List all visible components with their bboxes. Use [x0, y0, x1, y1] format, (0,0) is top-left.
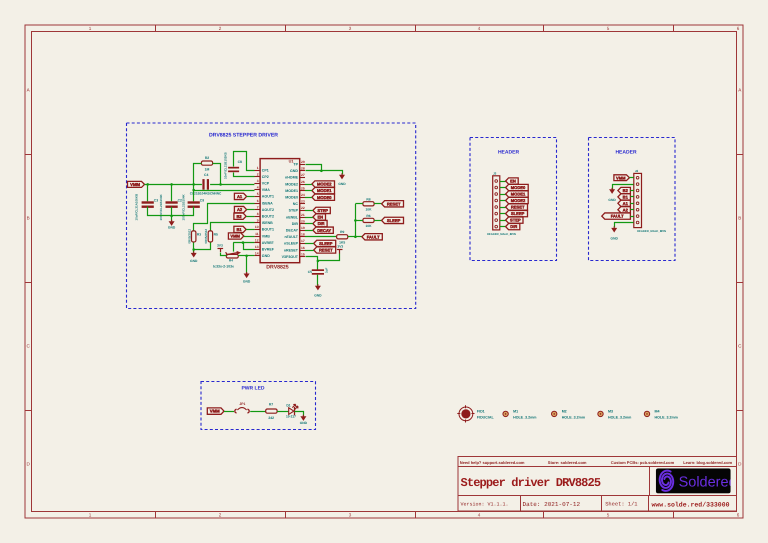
svg-text:29: 29 [301, 160, 305, 164]
svg-text:M3: M3 [608, 410, 613, 414]
wire BOUT1 [246, 229, 254, 231]
svg-text:Soldered: Soldered [679, 475, 737, 491]
svg-text:BVREF: BVREF [262, 248, 275, 252]
wire gnd stub [193, 250, 195, 253]
svg-text:1uF: 1uF [325, 267, 329, 273]
wire DECAY [305, 230, 313, 232]
svg-text:MODE2: MODE2 [285, 182, 298, 186]
svg-text:DECAY: DECAY [286, 229, 299, 233]
svg-text:GND: GND [262, 254, 270, 258]
LED D1 [289, 408, 294, 415]
svg-text:A1: A1 [623, 201, 629, 206]
svg-text:19: 19 [301, 226, 305, 230]
svg-text:ISENB: ISENB [262, 221, 273, 225]
svg-text:6: 6 [257, 199, 259, 203]
net flag A2 (AOUT2) [234, 206, 246, 212]
svg-text:R8: R8 [366, 197, 370, 201]
capacitor C9 [188, 201, 200, 203]
svg-text:20: 20 [301, 219, 305, 223]
net flag VMM at VMB pin [228, 233, 243, 239]
wire R8 leads [355, 203, 363, 205]
resistor R6 10K [363, 218, 374, 222]
svg-text:nENBL: nENBL [286, 215, 299, 219]
svg-text:5: 5 [607, 513, 610, 518]
wire C9 top lead [193, 190, 195, 201]
svg-text:VMM: VMM [130, 182, 140, 187]
net flag STEP (J3) [506, 217, 523, 223]
net flag MODE0 [312, 194, 335, 200]
svg-text:B: B [27, 216, 30, 221]
net flag STEP [313, 207, 330, 213]
net flag A1 (J2) [618, 200, 631, 206]
net flag RESET (J3) [506, 204, 528, 210]
svg-text:R3: R3 [197, 232, 201, 236]
capacitor C5 [312, 269, 324, 271]
svg-text:4: 4 [257, 186, 259, 190]
svg-text:22: 22 [301, 206, 305, 210]
capacitor C8 (CP1-CP2) [228, 167, 239, 169]
net flag DIR (J3) [506, 223, 520, 229]
svg-text:2: 2 [219, 26, 222, 31]
svg-text:0R05/2512: 0R05/2512 [187, 229, 191, 244]
wire VMB [244, 236, 255, 238]
capacitor C3 [142, 201, 154, 203]
junction pullup rail [354, 219, 357, 222]
junction TP/GND [320, 170, 323, 173]
wire J2 A2 [630, 209, 633, 211]
svg-text:RESET: RESET [387, 201, 401, 206]
wire J3 MODE0 [500, 187, 506, 189]
wire R9 to FAULT flag [348, 236, 362, 238]
wire VCP segment after C4 [210, 184, 254, 186]
connector J2 body [634, 173, 642, 227]
svg-text:STEP: STEP [510, 218, 521, 223]
svg-text:STEP: STEP [317, 208, 328, 213]
wire BOUT2 [246, 216, 254, 218]
svg-text:DIR: DIR [292, 222, 299, 226]
wire J2 pin8 to gnd [615, 223, 634, 228]
resistor R8 10K [363, 202, 374, 206]
svg-text:B2: B2 [236, 214, 242, 219]
svg-text:7: 7 [257, 205, 259, 209]
net flag RESET (pullup) [382, 201, 404, 207]
svg-text:PWR LED: PWR LED [241, 385, 264, 391]
svg-text:1: 1 [89, 26, 92, 31]
wire 3V3 to trimmer [221, 253, 227, 256]
net flag EN [313, 214, 326, 220]
wire MODE2 [305, 184, 312, 186]
net flag FAULT [362, 234, 382, 240]
wire CP1 net [234, 152, 255, 171]
svg-text:C5: C5 [308, 270, 312, 274]
svg-text:AOUT1: AOUT1 [262, 195, 274, 199]
svg-text:10nF/CL21B103KB: 10nF/CL21B103KB [223, 151, 227, 179]
net flag EN (J3) [506, 178, 519, 184]
wire JP1 to R7 [250, 411, 266, 413]
svg-text:Sheet: 1/1: Sheet: 1/1 [605, 502, 637, 508]
svg-text:HEADER_MALE_8PIN: HEADER_MALE_8PIN [637, 229, 666, 233]
wire trimmer to gnd net [238, 255, 246, 257]
ground (PWR LED) [302, 415, 304, 417]
wire J3 EN [500, 181, 506, 183]
svg-text:B1: B1 [236, 227, 242, 232]
svg-text:3V3: 3V3 [337, 245, 343, 249]
net flag MODE2 [312, 181, 335, 187]
wire wiper feed [233, 243, 235, 252]
dashed box HEADER 1 [470, 138, 557, 261]
svg-text:nRESET: nRESET [284, 248, 299, 252]
svg-text:CP1: CP1 [262, 168, 269, 172]
svg-text:10uF/CL31A106KB: 10uF/CL31A106KB [135, 193, 139, 221]
wire AVREF [233, 242, 254, 244]
net flag SLEEP (pullup) [382, 217, 404, 223]
wire CP2 net [234, 173, 255, 177]
svg-text:2: 2 [257, 172, 259, 176]
capacitor C2 [166, 201, 178, 203]
net flag MODE1 (J3) [506, 191, 529, 197]
svg-text:Stepper driver DRV8825: Stepper driver DRV8825 [461, 476, 601, 490]
svg-text:A2: A2 [623, 207, 629, 212]
svg-text:MODE0: MODE0 [317, 195, 332, 200]
svg-text:BOUT2: BOUT2 [262, 215, 274, 219]
svg-text:10K: 10K [365, 224, 372, 228]
svg-text:GND: GND [300, 421, 308, 425]
connector J3 body [493, 176, 500, 230]
svg-text:MODE1: MODE1 [285, 189, 298, 193]
wire cap bank bottom rail [148, 207, 194, 216]
svg-text:ISENA: ISENA [262, 201, 273, 205]
capacitor C4 (series on VCP) [202, 179, 204, 190]
svg-text:3V3: 3V3 [217, 243, 223, 247]
wire ISENB to R5 [211, 223, 255, 231]
wire VMM rail [145, 184, 202, 186]
svg-text:VMM: VMM [210, 409, 220, 414]
wire VMA feed [194, 185, 255, 191]
svg-text:GND: GND [608, 198, 616, 202]
wire MODE0 [305, 197, 312, 199]
svg-text:Date: 2021-07-12: Date: 2021-07-12 [523, 501, 581, 508]
svg-text:12: 12 [255, 238, 259, 242]
wire ISENA to R3 [194, 204, 255, 231]
junction VMA [192, 189, 195, 192]
op-amp U1 DRV8825 IC body [260, 159, 300, 263]
ground (pin 28) [341, 173, 343, 175]
wire J2 pin2 to gnd [613, 185, 634, 190]
wire MODE1 [305, 190, 312, 192]
wire GND pin14 [247, 255, 255, 257]
svg-text:MODE0: MODE0 [285, 196, 298, 200]
wire AOUT1 [247, 196, 255, 198]
svg-text:AOUT2: AOUT2 [262, 208, 274, 212]
svg-text:R2: R2 [205, 156, 209, 160]
net flag RESET at pin16 [314, 247, 336, 253]
net flag MODE1 [312, 187, 335, 193]
net flag DECAY [313, 227, 333, 233]
svg-text:C9: C9 [200, 198, 204, 202]
resistor R5 sense [208, 231, 212, 242]
svg-text:25: 25 [301, 186, 305, 190]
svg-text:STEP: STEP [289, 209, 299, 213]
net flag VMM (supply input) [128, 181, 145, 187]
svg-text:AVREF: AVREF [262, 241, 275, 245]
svg-text:DIR: DIR [318, 221, 325, 226]
wire GND pin28 [306, 171, 343, 175]
net flag MODE2 (J3) [506, 197, 529, 203]
net flag B1 (J2) [618, 194, 631, 200]
svg-text:6: 6 [737, 513, 740, 518]
svg-text:MODE2: MODE2 [317, 182, 332, 187]
net flag DIR [313, 220, 327, 226]
svg-text:100nF/CL21B104K: 100nF/CL21B104K [159, 193, 163, 220]
svg-text:100nF/CL21B104K: 100nF/CL21B104K [182, 193, 186, 220]
wire J3 DIR [500, 226, 506, 228]
svg-text:JP1: JP1 [239, 402, 245, 406]
svg-text:D1: D1 [286, 403, 290, 407]
svg-text:11: 11 [255, 232, 259, 236]
svg-text:R4: R4 [229, 259, 233, 263]
svg-text:VMB: VMB [262, 234, 270, 238]
dashed box DRV8825 STEPPER DRIVER [127, 123, 416, 309]
junction sense gnd [192, 248, 195, 251]
svg-text:NC: NC [293, 202, 299, 206]
svg-text:17: 17 [301, 239, 305, 243]
svg-text:HEADER_MALE_8PIN: HEADER_MALE_8PIN [487, 232, 516, 236]
wire J2 pin1 [629, 177, 633, 179]
wire VMM to JP1 [224, 411, 234, 413]
svg-text:C3: C3 [154, 198, 158, 202]
svg-text:26: 26 [301, 180, 305, 184]
junction C2 [170, 183, 173, 186]
potentiometer R4 trimmer [226, 254, 238, 258]
resistor R3 sense [192, 231, 196, 242]
svg-text:J2: J2 [635, 169, 639, 173]
svg-text:Need help? support.soldered.co: Need help? support.soldered.com [460, 460, 525, 465]
svg-text:M1: M1 [513, 410, 518, 414]
svg-text:CL21B104KBCNNNC: CL21B104KBCNNNC [190, 192, 222, 196]
svg-text:28: 28 [301, 167, 305, 171]
svg-text:3: 3 [349, 513, 352, 518]
dashed box HEADER 2 [589, 138, 676, 261]
svg-text:1: 1 [89, 513, 92, 518]
mounting hole M1 [503, 411, 508, 416]
Soldered logo S icon [660, 471, 674, 491]
svg-text:GND: GND [338, 182, 346, 186]
frame row ticks left/right [25, 154, 32, 156]
svg-text:CP2: CP2 [262, 175, 269, 179]
wire J2 FAULT [630, 216, 633, 218]
title block dividers [458, 466, 737, 468]
svg-text:FID1: FID1 [477, 410, 485, 414]
svg-text:DRV8825: DRV8825 [266, 265, 289, 271]
svg-text:MODE1: MODE1 [317, 188, 332, 193]
net flag A1 (AOUT1) [234, 193, 246, 199]
svg-text:8: 8 [257, 212, 259, 216]
svg-text:4: 4 [478, 513, 481, 518]
wire pullup rail vertical [355, 204, 357, 237]
svg-text:5: 5 [257, 192, 259, 196]
wire V3P3OUT [306, 257, 318, 270]
svg-text:RESET: RESET [511, 205, 525, 210]
svg-text:R9: R9 [340, 230, 344, 234]
svg-text:VCP: VCP [262, 182, 270, 186]
wire C2 bottom lead [171, 207, 173, 222]
junction R2/VCP [219, 183, 222, 186]
Soldered logo text [679, 475, 737, 491]
U1 left pins 1-14 [254, 170, 260, 172]
svg-text:C4: C4 [204, 173, 208, 177]
wire J2 B2 [630, 190, 633, 192]
svg-text:3: 3 [257, 179, 259, 183]
title block border [458, 457, 737, 512]
net flag SLEEP (J3) [506, 210, 528, 216]
svg-text:SLEEP: SLEEP [511, 211, 525, 216]
wire J3 SLEEP [500, 213, 506, 215]
wire C5 to gnd [317, 275, 319, 286]
svg-text:HOLE_3.2mm: HOLE_3.2mm [513, 415, 536, 419]
svg-text:Custom PCBs: pcb.soldered.com: Custom PCBs: pcb.soldered.com [611, 460, 675, 465]
svg-text:R7: R7 [269, 403, 273, 407]
net flag MODE0 (J3) [506, 184, 529, 190]
svg-text:SLEEP: SLEEP [319, 241, 333, 246]
svg-text:242: 242 [268, 416, 274, 420]
wire gnd drop [246, 256, 248, 274]
wire R6 leads [355, 220, 363, 222]
svg-text:6: 6 [737, 26, 740, 31]
svg-text:21: 21 [301, 213, 305, 217]
wire R2 right branch [213, 164, 221, 185]
svg-text:GND: GND [190, 259, 198, 263]
wire D1 to gnd [295, 412, 304, 417]
svg-text:23: 23 [301, 200, 305, 204]
connector J2 pin circles [636, 176, 639, 179]
svg-text:www.solde.red/333000: www.solde.red/333000 [652, 501, 730, 508]
svg-text:GND: GND [611, 237, 619, 241]
svg-text:MODE0: MODE0 [511, 185, 526, 190]
svg-text:MODE1: MODE1 [511, 192, 526, 197]
wire AOUT2 [247, 209, 255, 211]
svg-text:16: 16 [301, 246, 305, 250]
wire STEP [305, 210, 313, 212]
svg-text:TP: TP [293, 163, 298, 167]
ground (J2 pin2) [611, 188, 613, 190]
ground (J2 pin8) [613, 226, 615, 228]
ground (sense) [193, 251, 195, 253]
net flag SLEEP at pin17 [314, 240, 336, 246]
mounting hole M2 [552, 411, 557, 416]
wire TP pad to gnd net [306, 165, 322, 171]
frame column ticks top/bottom [155, 25, 157, 32]
wire J3 MODE2 [500, 200, 506, 202]
svg-text:GND: GND [243, 280, 251, 284]
resistor R7 242 [266, 409, 277, 413]
svg-text:A1: A1 [237, 194, 243, 199]
fiducial FID1 [459, 407, 473, 421]
svg-text:B1: B1 [623, 194, 629, 199]
svg-text:18: 18 [301, 233, 305, 237]
svg-text:V3P3OUT: V3P3OUT [282, 255, 299, 259]
net flag VMM (PWR LED) [207, 408, 224, 414]
wire J2 B1 [630, 196, 633, 198]
svg-text:A2: A2 [237, 207, 243, 212]
svg-text:C8: C8 [238, 160, 242, 164]
junction pot/gnd [245, 255, 248, 258]
U1 right pins 29,28..15 [300, 164, 305, 166]
connector J3 pin circles [495, 180, 498, 183]
svg-text:GND: GND [290, 169, 298, 173]
svg-text:Version: V1.1.1.: Version: V1.1.1. [461, 501, 509, 507]
svg-text:RESET: RESET [319, 248, 333, 253]
svg-text:EN: EN [317, 215, 323, 220]
net flag VMM (J2 pin1) [614, 175, 630, 181]
svg-text:5: 5 [607, 26, 610, 31]
svg-text:MODE2: MODE2 [511, 198, 526, 203]
wire R2 left branch [194, 164, 202, 185]
jumper JP1 [235, 409, 237, 413]
dashed box PWR LED [201, 382, 316, 430]
svg-text:Learn: blog.soldered.com: Learn: blog.soldered.com [683, 460, 732, 465]
svg-text:M2: M2 [562, 410, 567, 414]
svg-text:FIDUCIAL: FIDUCIAL [477, 415, 495, 419]
svg-text:1M: 1M [205, 168, 210, 172]
svg-text:nSLEEP: nSLEEP [284, 242, 299, 246]
svg-text:HOLE_3.2mm: HOLE_3.2mm [608, 415, 631, 419]
mounting hole M4 [644, 411, 649, 416]
svg-text:VMM: VMM [616, 175, 626, 180]
junction C3 [146, 183, 149, 186]
resistor R2 1M parallel [201, 161, 212, 165]
svg-text:SLEEP: SLEEP [387, 218, 401, 223]
wire 3V3 branch [318, 254, 340, 261]
svg-text:27: 27 [301, 173, 305, 177]
net flag B1 (BOUT1) [234, 226, 246, 232]
wire nRESET [305, 250, 314, 252]
svg-text:J3: J3 [493, 172, 497, 176]
net flag FAULT (J2) [602, 213, 631, 219]
svg-text:tc33x-2-103e: tc33x-2-103e [213, 265, 234, 269]
svg-text:4: 4 [478, 26, 481, 31]
svg-text:EN: EN [510, 179, 516, 184]
power flag 3V3 (V3P3OUT) [337, 249, 343, 251]
svg-text:1: 1 [257, 166, 259, 170]
wire DIR [305, 223, 313, 225]
ground (cap bank) [171, 220, 173, 222]
svg-text:13: 13 [255, 245, 259, 249]
svg-text:10: 10 [255, 225, 259, 229]
svg-text:GND: GND [314, 294, 322, 298]
svg-text:M4: M4 [655, 410, 660, 414]
wire J3 STEP [500, 220, 506, 222]
junction fault rail [354, 236, 357, 239]
svg-text:R6: R6 [366, 214, 370, 218]
wire J3 MODE1 [500, 194, 506, 196]
junction bottom rail [170, 215, 173, 218]
mounting hole M3 [598, 411, 603, 416]
wire R7 to D1 [277, 411, 288, 413]
svg-text:24: 24 [301, 193, 305, 197]
svg-text:3: 3 [349, 26, 352, 31]
wire EN [305, 217, 313, 219]
svg-text:nFAULT: nFAULT [284, 235, 298, 239]
svg-text:nHOME: nHOME [285, 176, 299, 180]
wire C2 top lead [171, 184, 173, 201]
wire BVREF [244, 243, 255, 250]
svg-text:B: B [738, 216, 741, 221]
svg-text:HEADER: HEADER [498, 149, 520, 155]
svg-text:10K: 10K [365, 207, 372, 211]
resistor R9 1K5 [337, 235, 348, 239]
svg-text:R5: R5 [214, 232, 218, 236]
wire nSLEEP [305, 243, 314, 245]
